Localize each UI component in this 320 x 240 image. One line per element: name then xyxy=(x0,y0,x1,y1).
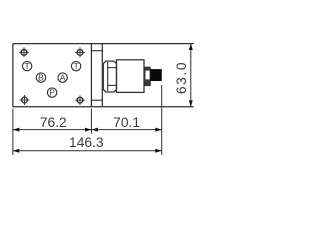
screw hole bottom-right xyxy=(75,95,85,105)
dimension line 70.1 xyxy=(91,128,161,132)
svg-text:63.0: 63.0 xyxy=(174,61,189,94)
small hex (between body and connector) xyxy=(145,67,150,85)
side block right edge xyxy=(101,44,103,107)
svg-text:146.3: 146.3 xyxy=(69,135,104,150)
screw hole bottom-left xyxy=(20,95,30,105)
svg-text:T: T xyxy=(24,61,29,71)
port B xyxy=(36,73,45,83)
svg-text:P: P xyxy=(49,88,55,98)
top edge line of plate + side block + extension line to vertical dimension xyxy=(13,43,194,45)
svg-text:76.2: 76.2 xyxy=(40,115,67,130)
hex nut (large, on valve body) xyxy=(103,61,116,92)
svg-text:A: A xyxy=(60,73,66,83)
bottom edge line of plate + side block + extension line to vertical dimension xyxy=(13,106,194,108)
svg-text:B: B xyxy=(38,73,44,83)
extension line right (below connector end) xyxy=(161,85,163,155)
dimension line 76.2 xyxy=(13,128,92,132)
port P xyxy=(47,88,56,98)
port T left xyxy=(22,61,31,71)
svg-text:T: T xyxy=(73,61,78,71)
port A xyxy=(58,73,67,83)
screw hole top-right xyxy=(75,47,85,57)
plate front view left edge xyxy=(12,44,14,107)
side block internal step line top xyxy=(91,50,102,52)
extension line left (below plate) xyxy=(12,109,14,155)
svg-text:70.1: 70.1 xyxy=(113,115,140,130)
extension line middle (below mounting face) xyxy=(90,109,92,134)
side block internal step line bottom xyxy=(91,99,102,101)
screw hole top-left xyxy=(19,47,29,57)
valve cylinder body xyxy=(117,60,145,93)
connector (solid black) xyxy=(150,69,162,81)
dimension line 146.3 xyxy=(13,149,162,153)
shared edge: plate right / side block left xyxy=(90,44,92,107)
dimension line 63.0 (vertical, right) xyxy=(189,44,193,107)
port T right xyxy=(71,61,80,71)
